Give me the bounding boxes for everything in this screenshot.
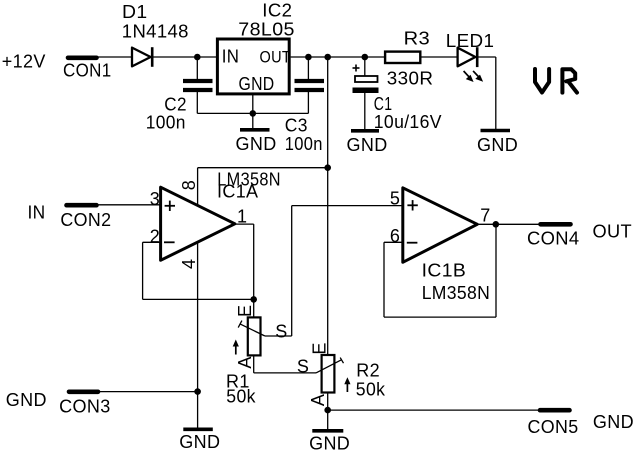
svg-text:A: A	[235, 356, 255, 368]
svg-text:CON3: CON3	[59, 397, 111, 417]
svg-text:GND: GND	[6, 390, 47, 410]
svg-text:R2: R2	[356, 361, 380, 381]
svg-text:LED1: LED1	[446, 31, 495, 51]
svg-text:4: 4	[179, 259, 199, 269]
svg-text:GND: GND	[179, 432, 220, 452]
svg-text:OUT: OUT	[260, 48, 292, 67]
svg-text:8: 8	[179, 180, 199, 190]
svg-text:IC1A: IC1A	[217, 181, 258, 201]
svg-text:C2: C2	[164, 95, 187, 115]
svg-text:GND: GND	[477, 135, 518, 155]
svg-text:GND: GND	[239, 74, 275, 94]
svg-text:A: A	[308, 394, 328, 406]
svg-text:1: 1	[237, 207, 247, 227]
svg-text:IC1B: IC1B	[422, 260, 467, 280]
svg-text:330R: 330R	[387, 68, 434, 88]
svg-text:D1: D1	[122, 2, 148, 22]
svg-text:+12V: +12V	[2, 52, 46, 72]
svg-text:5: 5	[390, 188, 400, 208]
svg-text:E: E	[309, 342, 329, 354]
svg-text:100n: 100n	[285, 134, 323, 154]
svg-text:S: S	[297, 357, 309, 377]
svg-text:100n: 100n	[146, 113, 186, 133]
svg-text:LM358N: LM358N	[422, 283, 491, 303]
svg-text:C3: C3	[285, 116, 308, 136]
svg-text:E: E	[235, 305, 255, 317]
svg-text:50k: 50k	[356, 380, 386, 400]
svg-text:CON1: CON1	[63, 61, 112, 81]
svg-text:S: S	[275, 322, 287, 342]
svg-text:GND: GND	[309, 433, 350, 452]
svg-text:50k: 50k	[226, 387, 256, 407]
svg-text:10u/16V: 10u/16V	[374, 112, 442, 132]
svg-text:7: 7	[480, 205, 490, 225]
svg-text:2: 2	[150, 227, 160, 247]
svg-text:IN: IN	[28, 203, 46, 223]
svg-text:CON5: CON5	[528, 417, 579, 437]
svg-text:R3: R3	[404, 29, 431, 49]
svg-text:GND: GND	[593, 412, 633, 432]
svg-text:IN: IN	[222, 47, 240, 67]
svg-text:6: 6	[390, 226, 400, 246]
svg-text:GND: GND	[236, 134, 277, 154]
svg-text:CON2: CON2	[60, 210, 111, 230]
svg-text:CON4: CON4	[527, 228, 580, 248]
svg-text:1N4148: 1N4148	[122, 21, 189, 41]
svg-text:GND: GND	[347, 135, 388, 155]
svg-text:OUT: OUT	[593, 222, 633, 242]
svg-text:78L05: 78L05	[238, 20, 294, 40]
svg-text:C1: C1	[374, 94, 393, 114]
svg-text:IC2: IC2	[262, 1, 292, 21]
svg-text:3: 3	[150, 189, 160, 209]
